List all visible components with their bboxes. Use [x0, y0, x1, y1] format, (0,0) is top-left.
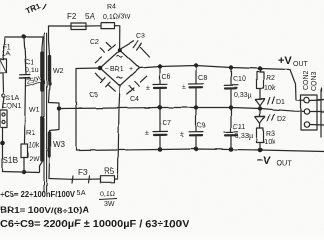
node AC tilde top	[117, 55, 123, 56]
svg-text:0,1Ω: 0,1Ω	[100, 191, 115, 198]
wire bottom rail left	[3, 172, 40, 173]
wire W2 to F2	[49, 25, 72, 27]
svg-text:0,1u: 0,1u	[25, 67, 39, 74]
svg-text:0,33µ: 0,33µ	[234, 92, 252, 99]
svg-text:CON3: CON3	[311, 71, 318, 91]
svg-text:F3: F3	[78, 168, 88, 177]
winding W3	[49, 109, 59, 179]
svg-text:+V: +V	[278, 55, 292, 67]
wire bridge bottom down to R5	[118, 86, 120, 179]
resistor R2	[259, 69, 261, 73]
resistor R5	[100, 176, 115, 183]
label D1	[268, 97, 275, 105]
wire 0V rail	[59, 108, 304, 112]
resistor R1	[21, 144, 28, 158]
svg-text:2W: 2W	[29, 156, 40, 163]
node R1 bottom	[22, 170, 26, 174]
capacitor C7	[159, 108, 161, 131]
wire R5 to bridge bottom wire	[115, 178, 119, 180]
wire + rail to pin1	[290, 70, 304, 101]
svg-text:1A: 1A	[2, 51, 11, 58]
switch S1A contact	[2, 94, 5, 97]
diode D2	[259, 109, 261, 116]
svg-text:C10: C10	[233, 76, 246, 83]
wire minus feed from bridge left	[76, 68, 100, 151]
svg-text:D1: D1	[276, 99, 285, 106]
capacitor C11	[230, 108, 232, 132]
svg-text:C11: C11	[233, 124, 245, 131]
svg-text:S1A: S1A	[6, 95, 20, 102]
node minus C11	[229, 147, 234, 152]
node AC tilde bottom	[117, 77, 123, 78]
fuse F1	[0, 59, 7, 73]
svg-text:C3: C3	[136, 33, 145, 40]
svg-text:C8: C8	[198, 75, 207, 82]
svg-text:R3: R3	[266, 131, 275, 138]
svg-text:CON1: CON1	[2, 103, 22, 110]
wire + rail	[140, 66, 291, 70]
svg-text:F2: F2	[67, 12, 77, 21]
node minus R3	[258, 148, 263, 153]
winding W2	[49, 26, 60, 108]
svg-text:W2: W2	[53, 68, 64, 75]
wire mains top	[5, 36, 43, 38]
capacitor C3 (NE snubber)	[121, 41, 150, 57]
capacitor C8	[195, 66, 197, 84]
node plus C10	[229, 65, 233, 69]
wire F2 to R4	[86, 25, 101, 27]
svg-text:2÷C5= 22÷100nF/100V: 2÷C5= 22÷100nF/100V	[0, 190, 76, 199]
svg-text:C9: C9	[197, 122, 206, 129]
svg-text:±: ±	[146, 85, 150, 92]
svg-text:+: +	[129, 66, 133, 73]
svg-text:0,33µ: 0,33µ	[235, 133, 253, 140]
svg-text:C4: C4	[130, 96, 139, 103]
capacitor C10	[230, 68, 232, 85]
node 0V C7	[158, 105, 162, 109]
svg-text:±: ±	[182, 84, 186, 91]
svg-text:R4: R4	[107, 4, 116, 11]
svg-text:W3: W3	[53, 140, 66, 149]
svg-text:10k: 10k	[264, 139, 276, 146]
capacitor C1	[24, 37, 26, 74]
winding W1	[40, 37, 44, 172]
svg-text:±: ±	[145, 130, 149, 137]
capacitor C5 (SW snubber)	[95, 73, 115, 91]
svg-text:W1: W1	[29, 107, 40, 114]
resistor R4	[101, 23, 115, 29]
svg-text:10k: 10k	[264, 85, 276, 92]
node plus C8	[194, 63, 198, 67]
svg-text:C6÷C9= 2200µF ± 10000µF / 63÷1: C6÷C9= 2200µF ± 10000µF / 63÷100V	[0, 219, 189, 230]
node 0V D1 D2	[258, 106, 262, 110]
wire minus rail	[76, 149, 324, 152]
svg-text:5A: 5A	[77, 190, 86, 197]
svg-text:−V: −V	[257, 155, 271, 167]
svg-text:C2: C2	[90, 39, 99, 46]
transformer TR1 core	[43, 33, 45, 192]
pin 1	[304, 97, 309, 102]
svg-text:CON2: CON2	[303, 70, 310, 90]
capacitor C6	[159, 67, 161, 85]
fuse F2	[71, 23, 86, 30]
svg-text:BR1: BR1	[110, 66, 124, 73]
node minus C7	[158, 147, 163, 152]
svg-text:C1: C1	[25, 59, 34, 66]
svg-text:BR1= 100V/(8÷10)A: BR1= 100V/(8÷10)A	[0, 206, 89, 215]
svg-text:C6: C6	[162, 74, 171, 81]
svg-text:−: −	[105, 66, 109, 73]
svg-text:R1: R1	[26, 130, 35, 137]
pin 3	[304, 122, 309, 127]
svg-text:±: ±	[180, 131, 184, 138]
node S1B junction	[0, 141, 5, 146]
capacitor C9	[195, 108, 197, 132]
svg-text:C5: C5	[89, 92, 98, 99]
svg-text:10k: 10k	[28, 142, 40, 149]
wire left vertical to F1	[4, 37, 6, 59]
wire F3 to R5	[91, 178, 100, 180]
node minus C9	[194, 147, 199, 152]
node A (C1 top junction)	[22, 35, 26, 39]
capacitor C2 (NW snubber)	[95, 45, 115, 63]
node 0V start	[57, 106, 61, 110]
node 0V C11	[229, 105, 233, 109]
fuse F3	[71, 178, 91, 180]
label D2	[268, 114, 275, 122]
wire W3 bottom to F3	[49, 178, 71, 181]
svg-text:3W: 3W	[104, 201, 115, 208]
bridge BR1 diamond	[100, 50, 120, 68]
node bridge top	[118, 48, 122, 52]
pin 2	[304, 109, 309, 114]
svg-text:OUT: OUT	[293, 61, 309, 68]
svg-text:R2: R2	[266, 75, 275, 82]
svg-text:D2: D2	[277, 116, 286, 123]
wire F1 to switch	[2, 73, 5, 92]
capacitor C4 (SE snubber)	[127, 76, 147, 94]
wire CON1 down	[2, 127, 4, 171]
node bridge left (minus)	[98, 66, 103, 71]
svg-text:OUT: OUT	[277, 160, 293, 167]
svg-text:R5: R5	[104, 167, 115, 176]
wire R4 to bridge top	[115, 26, 120, 50]
svg-text:0,1Ω/3W: 0,1Ω/3W	[103, 14, 131, 21]
node plus R2	[258, 66, 262, 70]
diode D1	[256, 98, 265, 100]
node 0V C9	[194, 105, 198, 109]
svg-text:C7: C7	[162, 120, 171, 127]
resistor R3	[257, 128, 264, 143]
svg-text:S1B: S1B	[3, 156, 18, 165]
connector CON2 CON3 box	[301, 95, 317, 130]
svg-text:5A: 5A	[85, 12, 95, 21]
node plus C6	[158, 64, 162, 68]
connector CON1	[0, 110, 7, 127]
